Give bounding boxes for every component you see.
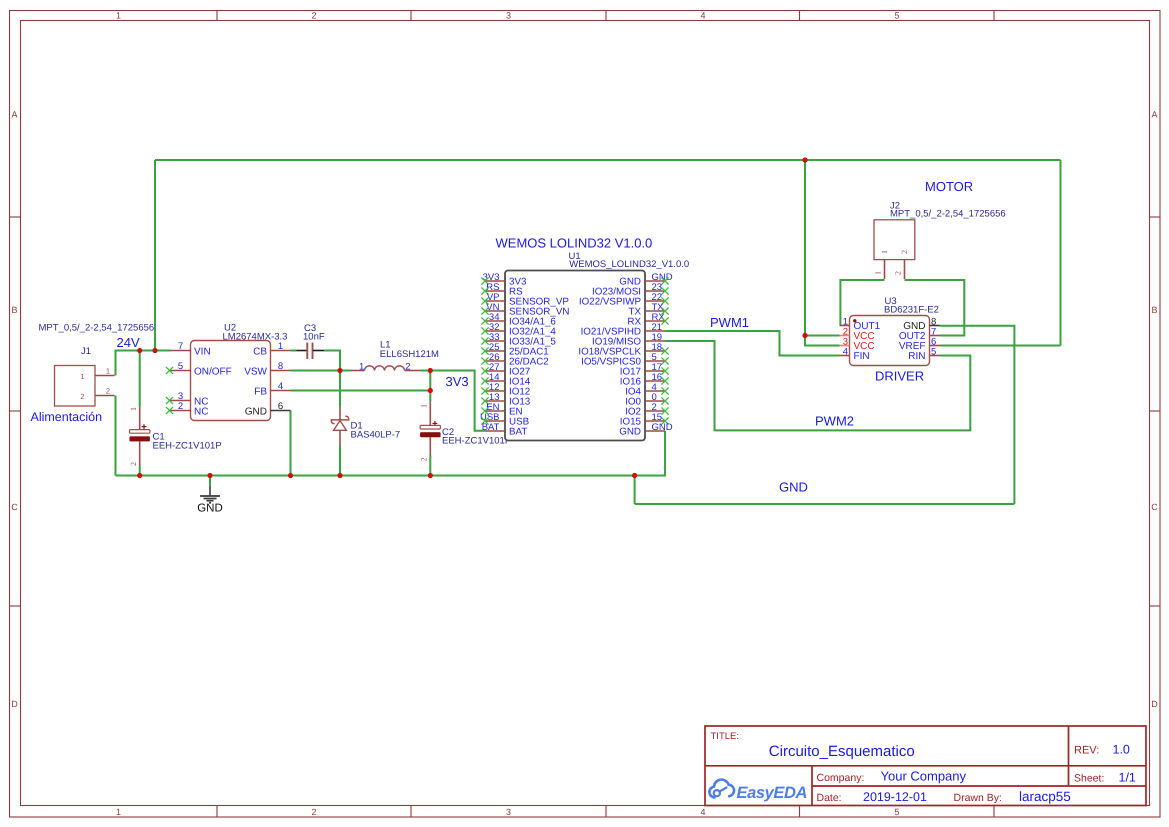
wire U2 VSW to L1 xyxy=(291,370,351,372)
D1 value label BAS40LP-7 xyxy=(351,430,401,441)
regulator U2 body xyxy=(191,341,271,421)
J2 pin 1 stub xyxy=(884,260,886,279)
U1 left pin EN (EN) xyxy=(481,402,522,418)
net label DRIVER xyxy=(875,368,924,383)
svg-text:1: 1 xyxy=(874,271,883,275)
frame row ticks left xyxy=(10,217,21,606)
svg-text:6: 6 xyxy=(278,401,283,412)
U1 left pin VN (SENSOR_VN) xyxy=(481,302,569,318)
wire 24V right rail down xyxy=(1060,160,1062,346)
svg-text:REV:: REV: xyxy=(1074,744,1099,756)
svg-text:2: 2 xyxy=(420,458,429,462)
svg-text:C: C xyxy=(1151,502,1158,512)
svg-text:Sheet:: Sheet: xyxy=(1074,773,1104,785)
Drawn By value laracp55 xyxy=(1019,789,1071,804)
svg-text:CB: CB xyxy=(253,347,267,358)
svg-text:FIN: FIN xyxy=(854,351,870,362)
svg-text:TITLE:: TITLE: xyxy=(711,731,740,742)
title block outline xyxy=(705,726,1146,806)
title block TITLE: label xyxy=(711,731,740,742)
svg-text:4: 4 xyxy=(700,807,705,817)
svg-text:B: B xyxy=(11,305,17,315)
svg-text:5: 5 xyxy=(178,361,183,372)
U1 right pin 4 (IO4) xyxy=(625,382,668,398)
REV value 1.0 xyxy=(1113,742,1130,756)
U1 right pin 16 (IO16) xyxy=(620,372,669,388)
wire 24V top rail xyxy=(155,159,1061,161)
J2 inner pin number 1 (rotated) xyxy=(880,250,889,254)
svg-text:MPT_0,5/_2-2,54_1725656: MPT_0,5/_2-2,54_1725656 xyxy=(890,209,1006,220)
U1 left pin 14 (IO14) xyxy=(481,372,530,388)
J1 pin number 1 xyxy=(106,367,110,376)
wire GND bottom rail xyxy=(116,475,635,477)
frame row letters left xyxy=(11,110,18,710)
svg-text:2: 2 xyxy=(80,392,84,401)
U3 pin 8 GND xyxy=(903,317,939,333)
U1 right pin 19 (IO19/MISO) xyxy=(592,332,665,348)
C3 value label 10nF xyxy=(303,332,325,343)
U1 reference label xyxy=(569,251,581,262)
svg-text:1: 1 xyxy=(116,11,121,21)
wire GND bottom run xyxy=(635,503,1015,505)
svg-text:2019-12-01: 2019-12-01 xyxy=(863,790,927,804)
U2 pin 3 NC xyxy=(166,391,209,408)
U1 value label WEMOS_LOLIND32_V1.0.0 xyxy=(569,259,689,270)
inductor L1 right pin xyxy=(405,370,421,372)
title block row divider 2 xyxy=(812,785,1146,787)
Date value 2019-12-01 xyxy=(863,790,927,804)
svg-text:FB: FB xyxy=(254,387,267,398)
wire U2 GND pin down to rail xyxy=(290,411,292,476)
wire GND up to U3 GND pin 8 xyxy=(940,326,1015,504)
wire to U3 VCC pin 3 xyxy=(805,336,840,346)
wire 24V branch up to top rail xyxy=(154,160,156,351)
svg-text:A: A xyxy=(11,110,17,120)
U3 value label BD6231F-E2 xyxy=(884,305,939,316)
svg-text:RIN: RIN xyxy=(908,351,925,362)
U1 left pin 34 (IO34/A1_6) xyxy=(481,312,556,328)
wire C2 bottom to GND rail xyxy=(429,455,431,476)
wire J1 pin 1 to 24V net xyxy=(116,351,171,376)
C1 plus sign xyxy=(142,424,147,429)
inductor L1 left pin xyxy=(351,370,365,372)
U1 right pin 18 (IO18/VSPCLK) xyxy=(578,342,668,358)
junction at 430.3,370.5 xyxy=(428,368,433,373)
frame column ticks bottom xyxy=(217,806,994,818)
U2 pin 4 FB xyxy=(254,381,290,398)
U1 left pin RS (RS) xyxy=(481,282,523,298)
U1 right pin 15 (IO15) xyxy=(620,412,669,428)
svg-text:PWM1: PWM1 xyxy=(710,315,749,330)
capacitor C1 top pin xyxy=(139,407,141,430)
svg-text:J1: J1 xyxy=(81,346,91,357)
svg-text:GND: GND xyxy=(652,422,673,433)
L1 pin 2 number xyxy=(405,361,410,372)
wire J1 pin 2 down to GND rail xyxy=(115,396,117,476)
title block REV cell divider xyxy=(1068,726,1070,786)
U1 right pin 23 (IO23/MOSI) xyxy=(592,282,669,298)
junction at 805,335.5 xyxy=(802,333,807,338)
svg-text:NC: NC xyxy=(194,407,208,418)
net label GND xyxy=(779,480,808,495)
svg-text:5: 5 xyxy=(931,347,936,358)
U2 pin 2 NC xyxy=(166,401,209,418)
L1 coil xyxy=(365,366,405,371)
Drawn By: label xyxy=(954,792,1002,804)
U3 pin 5 RIN xyxy=(908,347,939,363)
U1 left pin 25 (25/DAC1) xyxy=(481,342,548,358)
U3 pin 6 VREF xyxy=(899,337,940,353)
U1 right pin GND (GND) xyxy=(619,422,673,438)
wire PWM1 U1 pin 21 to U3 FIN xyxy=(665,331,840,356)
wire D1 top to VSW net xyxy=(339,371,341,408)
D1 reference label xyxy=(351,421,363,432)
svg-text:Your Company: Your Company xyxy=(881,769,967,784)
svg-text:1: 1 xyxy=(106,367,110,376)
C2 value label xyxy=(442,435,511,446)
svg-text:Alimentación: Alimentación xyxy=(31,410,103,424)
svg-text:3: 3 xyxy=(506,11,511,21)
C1 pin 1 number (rotated) xyxy=(129,407,138,411)
svg-text:WEMOS LOLIND32 V1.0.0: WEMOS LOLIND32 V1.0.0 xyxy=(496,236,653,251)
frame column numbers bottom xyxy=(116,807,900,817)
wire J2 pin 2 to U3 OUT2 xyxy=(905,280,965,336)
U1 left pin VP (SENSOR_VP) xyxy=(481,292,569,308)
Company value Your Company xyxy=(881,769,967,784)
J2 inner pin number 2 (rotated) xyxy=(900,250,909,254)
L1 pin 1 number xyxy=(359,361,364,372)
svg-text:2: 2 xyxy=(894,271,903,275)
svg-text:Drawn By:: Drawn By: xyxy=(954,792,1002,804)
U1 left pin 32 (IO32/A1_4) xyxy=(481,322,556,338)
svg-text:MPT_0,5/_2-2,54_1725656: MPT_0,5/_2-2,54_1725656 xyxy=(39,323,155,334)
svg-text:7: 7 xyxy=(178,341,183,352)
svg-text:laracp55: laracp55 xyxy=(1019,789,1071,804)
svg-text:D: D xyxy=(11,699,18,709)
title text Circuito_Esquematico xyxy=(769,743,915,760)
C3 right pin xyxy=(313,350,324,352)
U2 pin 8 VSW xyxy=(244,361,290,378)
U1 left pin BAT (BAT) xyxy=(482,422,528,438)
EasyEDA logo xyxy=(709,780,807,802)
svg-text:GND: GND xyxy=(245,407,267,418)
U3 pin 7 OUT2 xyxy=(899,327,940,343)
svg-text:Company:: Company: xyxy=(817,772,865,784)
svg-text:3: 3 xyxy=(506,807,511,817)
U1 left pin 3V3 (3V3) xyxy=(481,272,527,288)
svg-text:2: 2 xyxy=(311,11,316,21)
wire U1 GND pin down to rail xyxy=(635,431,665,476)
C2 pin 1 number (rotated) xyxy=(420,404,429,408)
U3 pin 2 VCC xyxy=(840,327,875,343)
svg-text:Date:: Date: xyxy=(817,792,842,804)
wire to U3 VCC pin 2 xyxy=(805,335,840,337)
D1 triangle xyxy=(334,421,347,431)
U1 right pin 2 (IO2) xyxy=(625,402,668,418)
C2 reference label xyxy=(442,427,454,438)
frame row letters right xyxy=(1151,110,1158,710)
C3 right plate xyxy=(312,343,314,360)
svg-text:Circuito_Esquematico: Circuito_Esquematico xyxy=(769,743,915,760)
U3 pin 3 VCC xyxy=(840,337,875,353)
wire 3V3 to U1 BAT pin xyxy=(430,371,485,431)
J1 value label MPT xyxy=(39,323,155,334)
J2 reference label xyxy=(890,201,900,212)
J2 pin number 2 (rotated) xyxy=(894,271,903,275)
svg-text:C: C xyxy=(11,502,18,512)
connector J1 body xyxy=(55,366,96,407)
U1 right pin GND (GND) xyxy=(619,272,673,288)
svg-text:2: 2 xyxy=(405,361,410,372)
svg-text:1: 1 xyxy=(880,250,889,254)
ground symbol xyxy=(200,486,220,503)
frame column numbers top xyxy=(116,11,900,21)
L1 reference label xyxy=(380,340,391,351)
frame row ticks right xyxy=(1150,217,1161,606)
wire 24V to C1 top xyxy=(139,351,141,408)
wire 24V rail to U3 VREF pin 6 xyxy=(940,345,1061,347)
U2 pin 5 ON/OFF xyxy=(166,361,232,378)
svg-text:PWM2: PWM2 xyxy=(815,414,854,429)
svg-text:4: 4 xyxy=(843,347,848,358)
svg-text:1: 1 xyxy=(278,341,283,352)
junction at 430.3,390.5 xyxy=(428,388,433,393)
svg-text:BAT: BAT xyxy=(509,427,527,438)
wire U2 CB to C3 xyxy=(291,350,297,352)
junction at 430.3,475.5 xyxy=(428,473,433,478)
svg-text:4: 4 xyxy=(700,11,705,21)
junction at 290.5,475.5 xyxy=(288,473,293,478)
svg-text:1: 1 xyxy=(129,407,138,411)
REV: label xyxy=(1074,744,1099,756)
driver U3 body xyxy=(850,316,930,366)
U2 pin 6 GND xyxy=(245,401,291,418)
svg-text:BAS40LP-7: BAS40LP-7 xyxy=(351,430,401,441)
svg-text:GND: GND xyxy=(619,427,641,438)
net label PWM1 xyxy=(710,315,749,330)
svg-text:GND: GND xyxy=(779,480,808,495)
C2 pin 2 number (rotated) xyxy=(420,458,429,462)
svg-text:MOTOR: MOTOR xyxy=(925,179,973,194)
U1 right pin TX (TX) xyxy=(628,302,668,318)
junction at 210,475.5 xyxy=(207,473,212,478)
J2 pin 2 stub xyxy=(904,260,906,279)
U1 left pin 33 (IO33/A1_5) xyxy=(481,332,556,348)
svg-text:1: 1 xyxy=(359,361,364,372)
junction at 805,160 xyxy=(802,157,807,162)
U1 title WEMOS LOLIND32 V1.0.0 xyxy=(496,236,653,251)
C2 bottom pin xyxy=(429,437,431,455)
C1 value label xyxy=(153,441,222,452)
D1 anode pin xyxy=(339,430,341,445)
C1 negative plate xyxy=(130,436,150,441)
J1 inner pin number 1 xyxy=(80,372,84,381)
U1 left pin 13 (IO13) xyxy=(481,392,530,408)
C1 pin 2 number (rotated) xyxy=(129,462,138,466)
wire GND symbol stub xyxy=(209,476,211,487)
svg-text:1.0: 1.0 xyxy=(1113,742,1130,756)
U1 right pin 17 (IO17) xyxy=(620,362,669,378)
U3 pin 1 marker dot xyxy=(853,319,856,322)
module U1 body xyxy=(505,271,645,441)
svg-text:VSW: VSW xyxy=(244,367,267,378)
L1 value label ELL6SH121M xyxy=(380,349,439,360)
wire 24V drop to U3 VCC xyxy=(804,160,806,336)
Company: label xyxy=(817,772,865,784)
svg-text:10nF: 10nF xyxy=(303,332,325,343)
svg-text:EEH-ZC1V101P: EEH-ZC1V101P xyxy=(153,441,222,452)
C2 positive plate xyxy=(420,425,440,429)
capacitor C2 top pin xyxy=(429,401,431,425)
C2 negative plate xyxy=(420,432,440,437)
Sheet value 1/1 xyxy=(1119,771,1136,785)
wire PWM2 U1 pin 19 to U3 RIN xyxy=(665,341,970,430)
connector J2 body xyxy=(874,220,915,260)
net label PWM2 xyxy=(815,414,854,429)
svg-text:BD6231F-E2: BD6231F-E2 xyxy=(884,305,939,316)
svg-text:4: 4 xyxy=(278,381,283,392)
C3 reference label xyxy=(304,323,316,334)
Sheet: label xyxy=(1074,773,1104,785)
wire 3V3 down to C2 xyxy=(429,371,431,402)
svg-text:1/1: 1/1 xyxy=(1119,771,1136,785)
svg-text:1: 1 xyxy=(116,807,121,817)
U1 right pin 5 (IO5/VSPICS0) xyxy=(581,352,669,368)
junction at 340,475.5 xyxy=(337,473,342,478)
junction at 634.6,475.5 xyxy=(632,473,637,478)
U1 right pin 22 (IO22/VSPIWP) xyxy=(579,292,669,308)
C1 positive plate xyxy=(130,430,150,434)
junction at 139.7,350.5 xyxy=(137,348,142,353)
U3 pin 4 FIN xyxy=(840,347,870,363)
ground symbol label GND xyxy=(197,503,223,515)
U2 pin 7 VIN xyxy=(171,341,211,358)
svg-text:B: B xyxy=(1151,305,1157,315)
svg-text:EEH-ZC1V101P: EEH-ZC1V101P xyxy=(442,435,511,446)
junction at 340,370.5 xyxy=(337,368,342,373)
wire D1 bottom to GND rail xyxy=(339,446,341,476)
D1 schottky cathode bar xyxy=(331,416,348,423)
svg-text:2: 2 xyxy=(900,250,909,254)
U1 left pin 27 (IO27) xyxy=(481,362,530,378)
net label Alimentacion xyxy=(31,410,103,424)
wire U2 FB to 3V3 net xyxy=(291,390,431,392)
wire GND rail drop xyxy=(634,476,636,505)
J1 inner pin number 2 xyxy=(80,392,84,401)
svg-text:A: A xyxy=(1151,110,1157,120)
svg-text:1: 1 xyxy=(420,404,429,408)
svg-text:24V: 24V xyxy=(117,335,140,350)
svg-text:2: 2 xyxy=(129,462,138,466)
svg-text:WEMOS_LOLIND32_V1.0.0: WEMOS_LOLIND32_V1.0.0 xyxy=(569,259,689,270)
U1 left pin USB (USB) xyxy=(480,412,530,428)
C2 plus sign xyxy=(433,421,438,426)
svg-text:5: 5 xyxy=(894,11,899,21)
net label 24V xyxy=(117,335,140,350)
net label 3V3 xyxy=(446,374,469,389)
svg-text:3V3: 3V3 xyxy=(446,374,469,389)
svg-text:ON/OFF: ON/OFF xyxy=(194,367,232,378)
svg-text:2: 2 xyxy=(106,387,110,396)
net label MOTOR xyxy=(925,179,973,194)
U3 pin 1 OUT1 xyxy=(840,317,881,333)
svg-text:BAT: BAT xyxy=(482,422,500,433)
J2 value label MPT xyxy=(890,209,1006,220)
svg-text:5: 5 xyxy=(894,807,899,817)
U2 value label LM2674MX-3.3 xyxy=(223,332,288,343)
svg-text:ELL6SH121M: ELL6SH121M xyxy=(380,349,439,360)
U1 left pin 26 (26/DAC2) xyxy=(481,352,548,368)
wire L1 to 3V3 node xyxy=(421,370,431,372)
J1 pin 1 stub xyxy=(95,375,115,377)
J1 pin 2 stub xyxy=(95,395,115,397)
C3 left plate xyxy=(306,343,308,360)
C1 reference label xyxy=(153,432,165,443)
svg-text:DRIVER: DRIVER xyxy=(875,368,924,383)
svg-text:8: 8 xyxy=(278,361,283,372)
U3 reference label xyxy=(885,296,897,307)
svg-text:D: D xyxy=(1151,699,1158,709)
J1 pin number 2 xyxy=(106,387,110,396)
Date: label xyxy=(817,792,842,804)
capacitor C3 left pin xyxy=(297,350,308,352)
J2 pin number 1 (rotated) xyxy=(874,271,883,275)
title block row divider 1 xyxy=(705,765,1146,767)
title block logo cell divider xyxy=(811,766,813,806)
svg-text:1: 1 xyxy=(80,372,84,381)
svg-text:2: 2 xyxy=(311,807,316,817)
diode D1 cathode pin xyxy=(339,407,341,420)
C1 bottom pin xyxy=(139,441,141,466)
U1 right pin 0 (IO0) xyxy=(625,392,668,408)
svg-text:GND: GND xyxy=(197,503,223,515)
U1 right pin 21 (IO21/VSPIHD) xyxy=(581,322,665,338)
U2 reference label xyxy=(224,323,236,334)
wire J2 pin 1 to U3 OUT1 xyxy=(840,280,884,326)
junction at 139.7,475.5 xyxy=(137,473,142,478)
junction at 155,350.5 xyxy=(152,348,157,353)
J1 reference label xyxy=(81,346,91,357)
wire C3 to VSW net xyxy=(324,351,340,371)
U1 left pin 12 (IO12) xyxy=(481,382,530,398)
U2 pin 1 CB xyxy=(253,341,290,358)
frame column ticks top xyxy=(217,11,994,21)
svg-text:VIN: VIN xyxy=(194,347,211,358)
U1 right pin RX (RX) xyxy=(627,312,668,328)
svg-text:EasyEDA: EasyEDA xyxy=(737,784,808,802)
svg-text:2: 2 xyxy=(178,401,183,412)
wire C1 bottom to GND rail xyxy=(139,466,141,476)
